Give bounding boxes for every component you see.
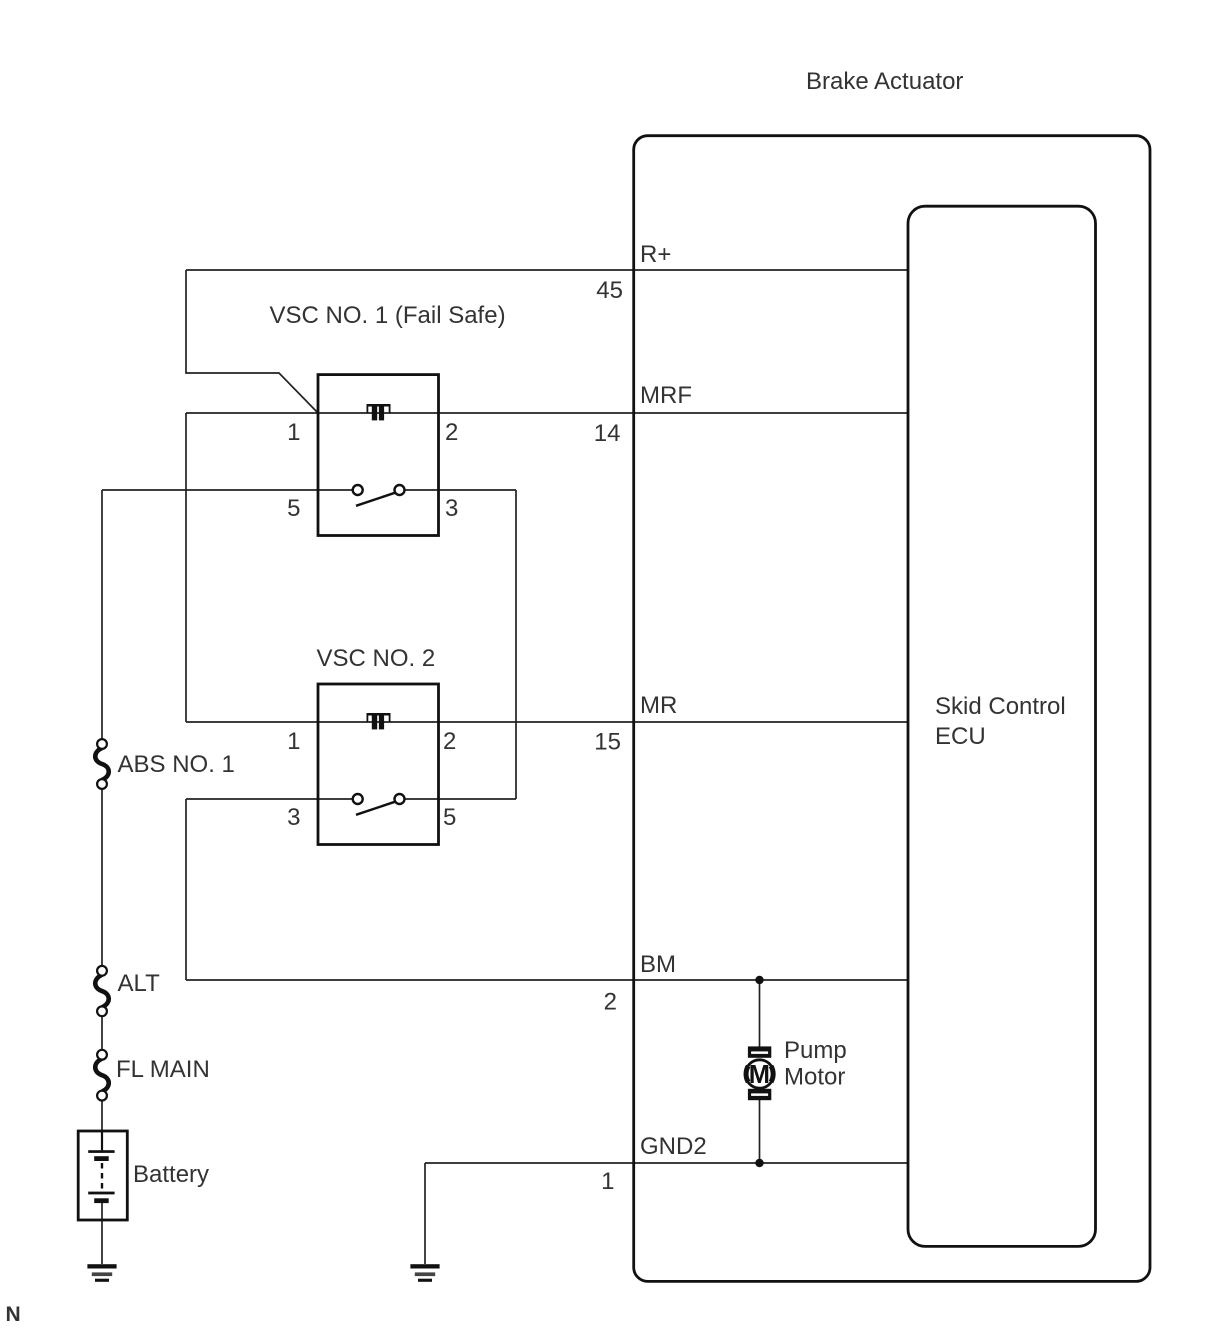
svg-text:3: 3 xyxy=(445,495,458,522)
svg-text:BM: BM xyxy=(640,951,676,978)
svg-text:2: 2 xyxy=(443,728,456,755)
svg-text:VSC NO. 1 (Fail Safe): VSC NO. 1 (Fail Safe) xyxy=(270,302,506,329)
svg-text:45: 45 xyxy=(596,277,623,304)
svg-text:1: 1 xyxy=(287,728,300,755)
svg-text:M: M xyxy=(749,1061,770,1089)
svg-text:ECU: ECU xyxy=(935,723,986,750)
svg-text:2: 2 xyxy=(445,419,458,446)
svg-text:Skid Control: Skid Control xyxy=(935,693,1066,720)
svg-text:Brake Actuator: Brake Actuator xyxy=(806,68,963,95)
svg-text:Battery: Battery xyxy=(133,1161,209,1188)
svg-text:15: 15 xyxy=(594,729,621,756)
svg-text:GND2: GND2 xyxy=(640,1133,707,1160)
svg-text:N: N xyxy=(6,1303,21,1326)
svg-text:R+: R+ xyxy=(640,241,671,268)
svg-text:FL MAIN: FL MAIN xyxy=(116,1056,210,1083)
svg-text:Pump: Pump xyxy=(784,1037,847,1064)
svg-text:ABS NO. 1: ABS NO. 1 xyxy=(118,751,235,778)
svg-text:MR: MR xyxy=(640,692,677,719)
svg-text:1: 1 xyxy=(601,1168,614,1195)
svg-text:ALT: ALT xyxy=(118,970,161,997)
svg-text:MRF: MRF xyxy=(640,382,692,409)
svg-text:1: 1 xyxy=(287,419,300,446)
svg-text:Motor: Motor xyxy=(784,1064,845,1091)
svg-text:5: 5 xyxy=(443,804,456,831)
svg-text:2: 2 xyxy=(604,989,617,1016)
svg-text:14: 14 xyxy=(594,420,621,447)
svg-text:VSC NO. 2: VSC NO. 2 xyxy=(317,645,436,672)
svg-text:5: 5 xyxy=(287,495,300,522)
svg-text:3: 3 xyxy=(287,804,300,831)
